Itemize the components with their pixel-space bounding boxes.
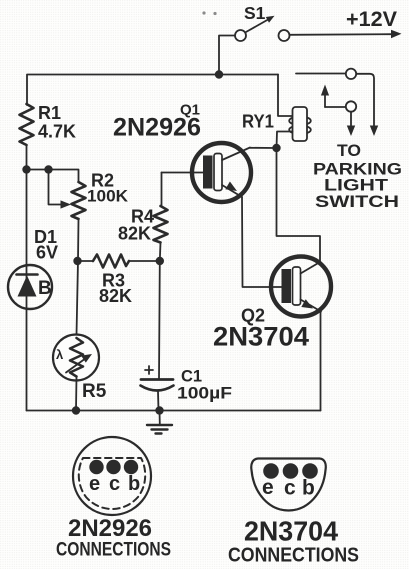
wire Q1 collector to relay junction	[250, 147, 277, 149]
transistor Q1 base slab	[214, 154, 222, 191]
svg-text:82K: 82K	[118, 224, 151, 244]
svg-text:B: B	[38, 278, 52, 299]
wire bottom rail	[27, 410, 321, 412]
svg-text:c: c	[109, 473, 120, 495]
diode D1 cathode bar	[17, 273, 38, 276]
transistor Q1 base bar	[203, 156, 213, 189]
wire left rail R1 to bottom	[26, 145, 28, 411]
svg-text:2N3704: 2N3704	[244, 516, 339, 547]
svg-text:e: e	[89, 473, 100, 495]
resistor R1	[20, 104, 34, 145]
junction dot C1 / bottom rail	[155, 406, 163, 414]
junction dot left rail / R2 branch	[22, 165, 30, 173]
svg-text:82K: 82K	[99, 286, 132, 306]
junction dot R3/R4/C1 node	[156, 257, 164, 265]
svg-text:SWITCH: SWITCH	[315, 192, 399, 211]
transistor Q2 emitter line with arrowhead	[301, 299, 322, 311]
wire Q2 emitter to bottom rail	[320, 311, 322, 411]
transistor Q1 collector line	[222, 148, 250, 161]
svg-text:C1: C1	[181, 368, 202, 386]
svg-text:100µF: 100µF	[177, 385, 232, 403]
photoresistor R5 circle	[53, 335, 99, 381]
wire S1 to +12V with arrowhead	[290, 30, 402, 39]
junction dot S1 branch	[215, 70, 223, 78]
svg-text:S1: S1	[244, 3, 266, 23]
junction dot wiper branch	[44, 165, 52, 173]
junction dot R5 / bottom rail	[72, 406, 80, 414]
2N3704 connection diagram case outline	[251, 459, 326, 511]
wire C1 bottom lead	[157, 392, 160, 411]
diode D1 anode triangle	[18, 276, 37, 297]
wire Q1 base to R4 corner	[161, 173, 163, 207]
svg-text:CONNECTIONS: CONNECTIONS	[228, 545, 359, 567]
svg-text:b: b	[128, 473, 140, 495]
wire R3 left lead	[78, 260, 94, 262]
wire R5 bottom to rail	[75, 377, 78, 411]
svg-text:+12V: +12V	[346, 8, 397, 31]
2N3704 pin dot b	[302, 463, 318, 479]
switch S1 left contact	[235, 30, 246, 41]
svg-text:RY1: RY1	[242, 112, 274, 132]
transistor Q1 emitter line with arrowhead	[222, 182, 242, 198]
potentiometer R2 wiper arrow	[49, 170, 72, 209]
switch S1 right contact	[279, 30, 290, 41]
wire ground stem	[159, 411, 161, 425]
switch S1 arm with arrowhead	[246, 16, 275, 32]
2N2926 connection diagram outer circle	[73, 437, 151, 515]
capacitor C1 bottom plate	[141, 386, 174, 391]
svg-text:2N2926: 2N2926	[68, 515, 152, 542]
relay contact terminal circle lower	[346, 101, 356, 111]
wire R2 top feed	[27, 170, 79, 183]
diode D1 circle	[8, 265, 52, 309]
2N3704 pin dot c	[283, 463, 299, 479]
2N2926 pin dot c	[106, 460, 120, 474]
photoresistor R5 zigzag	[70, 338, 83, 377]
transistor Q2 base bar	[282, 269, 292, 303]
wire Q1 emitter to Q2 base	[242, 197, 282, 287]
capacitor C1 top plate	[141, 378, 173, 381]
2N2926 pin dot e	[89, 460, 103, 474]
capacitor C1 plus sign	[145, 366, 153, 374]
svg-text:b: b	[302, 477, 315, 500]
potentiometer R2	[72, 182, 86, 219]
2N3704 pin dot e	[263, 463, 279, 479]
resistor R3	[93, 255, 129, 268]
svg-text:6V: 6V	[36, 243, 58, 263]
svg-text:c: c	[284, 477, 296, 500]
svg-text:CONNECTIONS: CONNECTIONS	[56, 540, 171, 561]
wire relay contact common	[296, 74, 374, 128]
arrowhead contact right down	[370, 126, 378, 137]
wire Q1 base lead	[162, 172, 204, 174]
wire relay coil top lead	[278, 75, 293, 117]
wire relay coil bottom lead to collector junction	[277, 132, 293, 149]
2N2926 connection diagram dashed case outline	[79, 458, 145, 509]
wire R3 right lead	[129, 260, 160, 262]
stray scan dots top left of S1	[202, 11, 216, 15]
svg-text:TO: TO	[337, 141, 361, 160]
wire R4 bottom to C1 top	[159, 243, 161, 380]
wire R2 bottom to R5	[77, 219, 79, 335]
junction dot collector/relay node	[272, 144, 280, 152]
wire top rail from left rail corner to relay drop	[27, 75, 278, 106]
svg-text:100K: 100K	[87, 187, 129, 206]
2N2926 pin dot b	[124, 460, 138, 474]
ground symbol	[147, 425, 172, 434]
junction dot R2/R3 node	[73, 257, 81, 265]
svg-text:R5: R5	[82, 381, 107, 402]
svg-text:R1: R1	[38, 103, 61, 123]
relay armature arrow up	[321, 85, 346, 108]
transistor Q2 base slab	[293, 267, 301, 305]
svg-text:4.7K: 4.7K	[38, 122, 76, 142]
svg-text:e: e	[262, 476, 274, 499]
svg-text:2N2926: 2N2926	[113, 114, 201, 142]
transistor Q2 collector line	[301, 262, 321, 274]
transistor Q1 circle	[192, 143, 251, 202]
wire relay junction to Q2 collector	[277, 148, 321, 262]
svg-text:2N3704: 2N3704	[213, 322, 309, 352]
resistor R4	[154, 206, 168, 243]
relay coil RY1	[289, 107, 311, 141]
wire S1 branch riser	[219, 36, 235, 75]
wire lower contact down with arrowhead	[347, 112, 355, 136]
transistor Q2 circle	[271, 257, 331, 317]
relay contact terminal circle upper	[346, 69, 356, 79]
photoresistor R5 arrow	[66, 354, 92, 373]
svg-text:λ: λ	[56, 347, 64, 362]
